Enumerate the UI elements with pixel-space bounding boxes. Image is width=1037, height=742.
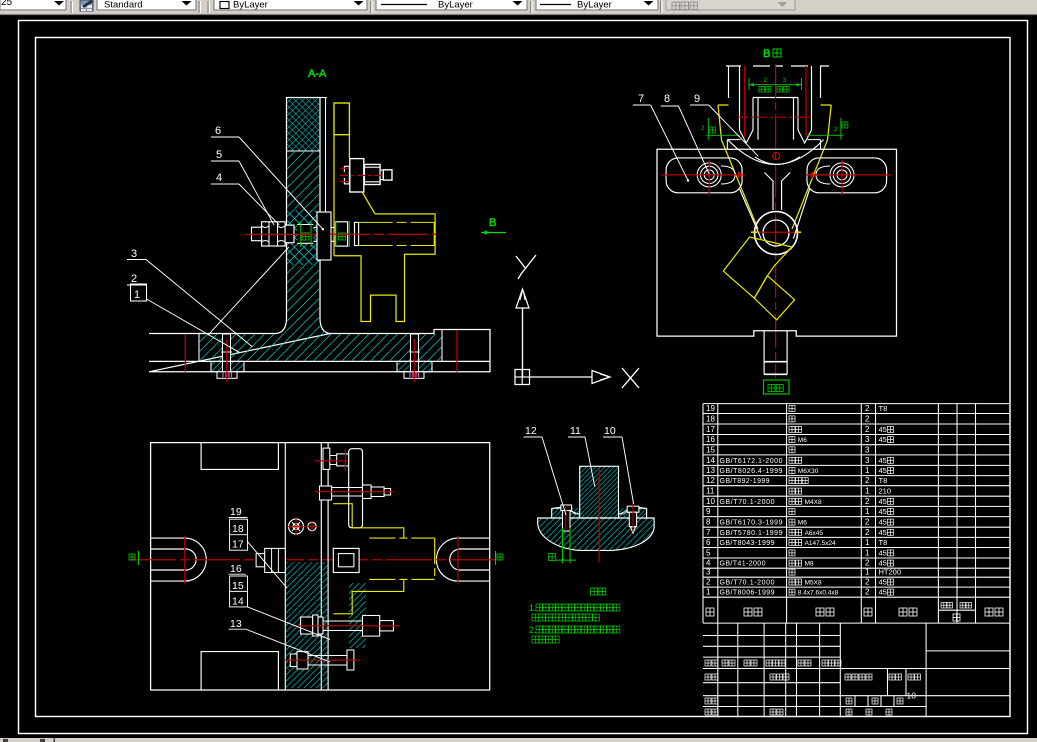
- detail centerline: [598, 469, 600, 563]
- svg-text:M6: M6: [798, 520, 807, 527]
- stud lines through slide block: [313, 227, 339, 229]
- svg-text:16: 16: [706, 435, 715, 444]
- nut on clamp screw end: [335, 222, 347, 246]
- toolbar separator: [70, 1, 72, 13]
- svg-text:2: 2: [865, 528, 870, 537]
- plan view plate outline: [151, 443, 490, 690]
- green dim right of wall: [335, 221, 337, 247]
- svg-text:18: 18: [706, 414, 715, 423]
- svg-text:13: 13: [706, 466, 715, 475]
- svg-text:2: 2: [131, 273, 137, 285]
- detail upper ledge: [552, 507, 647, 518]
- yellow C-washer outline right: [792, 105, 831, 229]
- svg-text:45: 45: [879, 548, 887, 557]
- svg-text:B: B: [489, 217, 496, 229]
- T-bolt right head: [404, 372, 424, 379]
- svg-text:ByLayer: ByLayer: [233, 0, 268, 11]
- left slot centerlines: [661, 174, 745, 176]
- hub inner circle: [763, 220, 789, 246]
- svg-text:2: 2: [865, 414, 870, 423]
- svg-text:2: 2: [865, 404, 870, 413]
- svg-text:2: 2: [865, 588, 870, 597]
- bottom layout-tab sliver: [0, 738, 1037, 742]
- detail base boat: [538, 518, 654, 550]
- svg-text:A-A: A-A: [308, 68, 327, 80]
- svg-text:M8: M8: [805, 561, 814, 568]
- section arrow A left: [138, 551, 140, 565]
- svg-text:17: 17: [232, 539, 244, 551]
- svg-text:45: 45: [879, 588, 887, 597]
- svg-text:1: 1: [865, 568, 870, 577]
- hub outer circle: [755, 212, 798, 255]
- svg-text:17: 17: [706, 425, 715, 434]
- svg-text:11: 11: [570, 425, 581, 437]
- wall boss cross-hatch patch: [287, 210, 320, 265]
- svg-text:GB/T70.1-2000: GB/T70.1-2000: [720, 499, 775, 506]
- svg-text:GB/T70.1-2000: GB/T70.1-2000: [720, 580, 775, 587]
- svg-text:3: 3: [865, 435, 870, 444]
- svg-text:6: 6: [215, 125, 221, 137]
- main horizontal centerline: [130, 559, 500, 561]
- washer seat arc: [728, 140, 824, 165]
- svg-text:HT200: HT200: [879, 568, 902, 577]
- combo lineweight "ByLayer": [536, 0, 658, 10]
- svg-text:15: 15: [706, 445, 715, 454]
- gusset chamfer: [363, 193, 376, 214]
- svg-text:10: 10: [907, 691, 917, 701]
- section arrow A right: [495, 551, 497, 565]
- toolbar separators: [198, 1, 200, 13]
- svg-text:2: 2: [706, 578, 711, 587]
- svg-text:ByLayer: ByLayer: [577, 0, 612, 11]
- T-bolt left head: [217, 372, 237, 379]
- plate bottom tail: [764, 331, 787, 375]
- central column: [284, 443, 286, 690]
- fork outer walls: [728, 66, 730, 98]
- svg-text:GB/T41-2000: GB/T41-2000: [720, 561, 766, 568]
- arm pivot bolt collar: [344, 166, 349, 184]
- hex bolt row: [320, 486, 332, 500]
- right slot rounded: [807, 158, 887, 193]
- svg-text:16: 16: [230, 563, 242, 575]
- svg-text:2: 2: [865, 476, 870, 485]
- base plate (part 3) outline: [149, 330, 490, 372]
- svg-text:T8: T8: [879, 476, 888, 485]
- svg-text:4: 4: [216, 172, 222, 184]
- combo text-style value (clipped "25"): [0, 0, 66, 10]
- bottom notch: [201, 652, 278, 690]
- svg-text:8: 8: [664, 93, 670, 105]
- svg-text:45: 45: [879, 466, 887, 475]
- svg-text:3: 3: [865, 456, 870, 465]
- svg-text:M6X30: M6X30: [798, 468, 819, 475]
- svg-text:5: 5: [216, 149, 222, 161]
- svg-text:8: 8: [706, 518, 711, 527]
- right screw of detail: [627, 506, 639, 512]
- svg-text:19: 19: [230, 506, 242, 518]
- slide block (part 6): [317, 212, 331, 260]
- detail block hatched: [580, 466, 619, 518]
- top notch: [201, 443, 278, 470]
- svg-text:45: 45: [879, 435, 887, 444]
- BOM header texts: [706, 608, 714, 616]
- svg-text:A6x45: A6x45: [805, 530, 824, 537]
- svg-text:210: 210: [879, 487, 892, 496]
- note line 4: [532, 636, 539, 643]
- T-bolt right shaft: [411, 334, 419, 361]
- svg-text:ByLayer: ByLayer: [438, 0, 473, 11]
- tall flange plate: [349, 449, 363, 528]
- fork left channel: [740, 66, 754, 143]
- svg-text:GB/T8043-1999: GB/T8043-1999: [720, 540, 775, 547]
- yellow swing clamp arm (rotated): [723, 237, 792, 298]
- UCS X label: [622, 368, 639, 388]
- callout 1 (boxed): [131, 284, 147, 301]
- bottom bolt row: [290, 654, 297, 667]
- left slot bolt circles: [697, 163, 721, 187]
- svg-text:8.4x7.6x0.4x8: 8.4x7.6x0.4x8: [798, 590, 839, 597]
- svg-text:A147.5x24: A147.5x24: [805, 540, 836, 547]
- svg-text:7: 7: [706, 528, 711, 537]
- arm bore lines: [359, 221, 435, 223]
- svg-text:25: 25: [1, 0, 13, 8]
- svg-text:4: 4: [706, 559, 711, 568]
- hub red crosshair: [753, 231, 801, 233]
- svg-text:15: 15: [232, 580, 244, 592]
- combo style "Standard": [97, 0, 196, 10]
- mid block: [333, 548, 359, 572]
- wall-base fillets: [276, 318, 287, 334]
- clamp screw (parts 4,5,6) hex nut: [252, 227, 262, 241]
- svg-text:1.: 1.: [529, 603, 537, 613]
- UCS Y label: [516, 255, 536, 279]
- wall through-hole: [297, 225, 313, 244]
- left screw of detail: [561, 505, 572, 511]
- svg-text:45: 45: [879, 528, 887, 537]
- yellow band: [369, 538, 434, 579]
- left U-slot: [151, 538, 207, 581]
- green dim in hole: [300, 222, 302, 247]
- clamp screw centerline: [246, 233, 330, 235]
- svg-text:2: 2: [865, 559, 870, 568]
- svg-text:5: 5: [706, 548, 711, 557]
- base end hole centerline left: [184, 334, 186, 372]
- svg-text:45: 45: [879, 559, 887, 568]
- arm pivot bolt red lines: [340, 167, 349, 169]
- green dims at fork top: [748, 78, 750, 90]
- svg-text:14: 14: [232, 596, 244, 608]
- svg-text:18: 18: [232, 523, 244, 535]
- wall top block cross-hatch: [287, 98, 320, 151]
- fork screw top edge: [726, 65, 829, 67]
- base end hole centerline right: [456, 330, 458, 372]
- UCS origin box: [515, 370, 530, 385]
- svg-text:45: 45: [879, 456, 887, 465]
- svg-text:9: 9: [706, 507, 711, 516]
- callout 15/14 box: [230, 576, 248, 607]
- svg-text:45: 45: [879, 518, 887, 527]
- T-nut left (hatched): [211, 361, 244, 371]
- wall face line: [325, 98, 327, 213]
- svg-text:3: 3: [706, 568, 711, 577]
- toolbar background: [0, 0, 1037, 15]
- svg-text:2.: 2.: [529, 625, 537, 635]
- svg-text:11: 11: [706, 487, 715, 496]
- wall lower hatch: [287, 151, 320, 334]
- svg-text:GB/T6172.1-2000: GB/T6172.1-2000: [720, 458, 783, 465]
- T-bolt left shaft: [223, 334, 231, 361]
- arm horizontal body: [334, 214, 435, 322]
- yellow lower step: [333, 579, 404, 613]
- svg-text:3: 3: [865, 445, 870, 454]
- adjusting screw on centerline: [256, 554, 265, 567]
- title block texts: [705, 660, 711, 666]
- svg-text:T8: T8: [879, 404, 888, 413]
- svg-text:GB/T8026.4-1999: GB/T8026.4-1999: [720, 468, 783, 475]
- svg-text:14: 14: [706, 456, 715, 465]
- support wall (part 3) outline: [287, 98, 321, 319]
- left slot rounded: [666, 158, 742, 193]
- svg-text:45: 45: [879, 425, 887, 434]
- svg-text:10: 10: [706, 497, 715, 506]
- title block grid: [703, 623, 1010, 717]
- svg-text:13: 13: [230, 618, 242, 630]
- svg-text:10: 10: [604, 425, 616, 437]
- B-view vertical centerline: [775, 64, 777, 378]
- green dims sides of fork: [707, 118, 709, 140]
- svg-text:45: 45: [879, 578, 887, 587]
- washer on screw end: [355, 222, 359, 245]
- column hatch below centerline: [286, 562, 328, 688]
- right U-slot: [436, 538, 489, 581]
- green dim below left screw: [562, 528, 564, 563]
- arm pivot bolt hex: [364, 164, 380, 184]
- svg-text:1: 1: [865, 487, 870, 496]
- svg-text:3: 3: [131, 248, 137, 260]
- socket screw circles: [289, 519, 304, 534]
- svg-text:19: 19: [706, 404, 715, 413]
- svg-text:6: 6: [706, 538, 711, 547]
- svg-text:7: 7: [638, 93, 644, 105]
- svg-text:2: 2: [865, 578, 870, 587]
- combo color "ByLayer" with swatch: [214, 0, 367, 10]
- UCS Y axis arrow: [522, 308, 524, 377]
- svg-text:9: 9: [694, 93, 700, 105]
- fork boss steps: [727, 140, 820, 150]
- svg-text:2: 2: [865, 497, 870, 506]
- notes title: [591, 588, 598, 595]
- BOM table grid: [703, 404, 1010, 623]
- base plate of B view: [657, 149, 897, 336]
- svg-text:1: 1: [865, 548, 870, 557]
- yellow C-washer outline left: [718, 105, 758, 229]
- main screw centerline: [330, 233, 436, 235]
- fork right channel: [798, 66, 812, 143]
- combo linetype "ByLayer": [376, 0, 527, 10]
- right slot bolt circles: [830, 163, 854, 187]
- fork bridge: [753, 97, 798, 99]
- svg-text:1: 1: [706, 588, 711, 597]
- long bolt row: [301, 617, 313, 634]
- UCS X axis arrow: [530, 376, 593, 378]
- svg-text:12: 12: [706, 476, 715, 485]
- combo plotstyle (disabled): [666, 0, 795, 10]
- svg-text:Standard: Standard: [104, 0, 143, 11]
- top small bolt: [323, 448, 330, 469]
- svg-text:2: 2: [865, 425, 870, 434]
- tail green dim: [764, 380, 790, 394]
- svg-text:45: 45: [879, 507, 887, 516]
- fork center tongue: [758, 98, 794, 140]
- fork channel centerlines red: [744, 66, 746, 137]
- base hatch region: [199, 334, 442, 361]
- svg-text:12: 12: [525, 425, 537, 437]
- svg-text:M4X8: M4X8: [805, 499, 822, 506]
- arm pivot bolt flange: [350, 159, 364, 192]
- V arms: [740, 189, 762, 239]
- yellow clamp arm (part: angle plate) vertical bar: [334, 103, 349, 135]
- red dashed horizontal through fork: [738, 116, 814, 118]
- svg-text:M5X8: M5X8: [805, 580, 822, 587]
- svg-text:GB/T5780.1-1999: GB/T5780.1-1999: [720, 530, 783, 537]
- T-bolt left centerline: [226, 339, 228, 382]
- svg-text:1: 1: [865, 466, 870, 475]
- svg-text:GB/T6170.3-1999: GB/T6170.3-1999: [720, 520, 783, 527]
- washer plate: [285, 225, 294, 243]
- svg-text:GB/T8006-1999: GB/T8006-1999: [720, 590, 775, 597]
- svg-text:1: 1: [134, 289, 140, 301]
- svg-text:1: 1: [865, 507, 870, 516]
- svg-text:45: 45: [879, 497, 887, 506]
- svg-text:B: B: [763, 48, 770, 60]
- note line 2: [532, 614, 539, 621]
- yellow clamp arm plan: upper step: [333, 504, 404, 538]
- small red circle: [773, 152, 780, 159]
- hub yellow ticks: [751, 231, 757, 233]
- stem of swing bolt: [764, 173, 790, 211]
- T-bolt right centerline: [413, 339, 415, 382]
- right slot centerlines: [806, 174, 891, 176]
- svg-text:GB/T892-1999: GB/T892-1999: [720, 478, 770, 485]
- callout 18/17 box: [230, 519, 248, 550]
- arm pivot bolt tip: [380, 170, 383, 179]
- svg-text:T8: T8: [879, 538, 888, 547]
- svg-text:M6: M6: [798, 437, 807, 444]
- svg-text:1: 1: [865, 538, 870, 547]
- dimstyle icon button: [78, 0, 95, 12]
- T-nut right (hatched): [397, 361, 432, 371]
- svg-text:2: 2: [865, 518, 870, 527]
